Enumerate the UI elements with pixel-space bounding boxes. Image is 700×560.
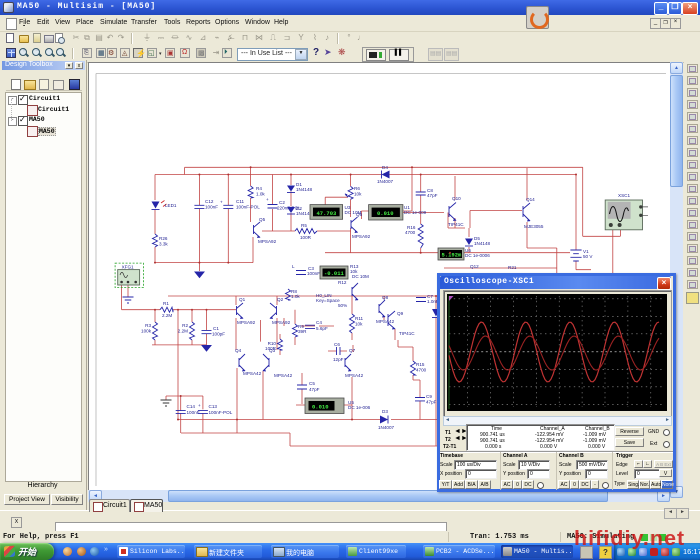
svg-text:DC 10M: DC 10M — [352, 274, 369, 279]
svg-text:50%: 50% — [338, 303, 347, 308]
svg-text:C4: C4 — [316, 320, 322, 325]
svg-text:47pF: 47pF — [427, 193, 438, 198]
svg-text:1N4148: 1N4148 — [474, 241, 491, 246]
svg-text:C14: C14 — [187, 404, 196, 409]
svg-text:Q2: Q2 — [277, 297, 284, 302]
svg-text:Q14: Q14 — [526, 197, 535, 202]
svg-text:100nF-POL: 100nF-POL — [236, 205, 260, 210]
svg-text:C11: C11 — [236, 199, 245, 204]
svg-text:C12: C12 — [205, 199, 214, 204]
svg-text:47pF: 47pF — [309, 387, 320, 392]
svg-text:1.0k: 1.0k — [291, 294, 300, 299]
svg-text:R1: R1 — [163, 301, 169, 306]
svg-text:1.0k: 1.0k — [256, 192, 265, 197]
svg-text:R6: R6 — [354, 186, 360, 191]
svg-text:MPSA92: MPSA92 — [352, 234, 371, 239]
svg-text:L: L — [292, 264, 295, 269]
svg-text:XSC1: XSC1 — [618, 193, 630, 198]
svg-text:100nF: 100nF — [205, 205, 218, 210]
svg-text:MPSA42: MPSA42 — [243, 371, 262, 376]
svg-text:DC 10M: DC 10M — [345, 210, 362, 215]
svg-text:100nF-POL: 100nF-POL — [209, 410, 233, 415]
svg-text:100R: 100R — [300, 235, 312, 240]
svg-text:TIP41C: TIP41C — [448, 222, 464, 227]
svg-text:R2: R2 — [182, 323, 188, 328]
svg-text:R3: R3 — [145, 323, 151, 328]
svg-text:C9: C9 — [426, 394, 432, 399]
svg-text:XFG1: XFG1 — [122, 265, 134, 270]
svg-text:MPSA42: MPSA42 — [274, 373, 293, 378]
svg-text:R4: R4 — [256, 186, 262, 191]
svg-text:100k: 100k — [141, 329, 152, 334]
svg-text:MPSA42: MPSA42 — [376, 319, 395, 324]
svg-text:Q12: Q12 — [470, 264, 479, 269]
svg-text:4700: 4700 — [416, 368, 427, 373]
svg-text:5.192m: 5.192m — [442, 252, 463, 259]
svg-text:Q7: Q7 — [349, 348, 356, 353]
svg-text:39R: 39R — [298, 329, 307, 334]
svg-text:MPSA92: MPSA92 — [237, 320, 256, 325]
svg-text:+: + — [266, 197, 269, 202]
svg-text:MJE3055: MJE3055 — [524, 224, 544, 229]
svg-text:R12: R12 — [338, 280, 347, 285]
svg-text:10k: 10k — [354, 192, 362, 197]
svg-text:100nF: 100nF — [307, 271, 320, 276]
svg-text:MPSA92: MPSA92 — [258, 239, 277, 244]
svg-text:C5: C5 — [309, 381, 315, 386]
svg-text:5.6pF: 5.6pF — [316, 326, 328, 331]
svg-text:C2: C2 — [279, 200, 285, 205]
svg-text:0.010: 0.010 — [312, 404, 329, 411]
svg-text:10k: 10k — [355, 322, 363, 327]
svg-text:-0.011: -0.011 — [324, 270, 345, 277]
svg-text:47pF: 47pF — [426, 400, 437, 405]
svg-text:Q1: Q1 — [239, 297, 246, 302]
svg-text:MPSA42: MPSA42 — [345, 373, 364, 378]
svg-text:12pF: 12pF — [333, 357, 344, 362]
svg-text:DC 1e-009: DC 1e-009 — [404, 210, 427, 215]
svg-text:1N4007: 1N4007 — [377, 179, 394, 184]
svg-text:DC 1e-006: DC 1e-006 — [348, 405, 371, 410]
svg-text:Q10: Q10 — [452, 196, 461, 201]
svg-text:47.703: 47.703 — [317, 210, 338, 217]
svg-text:Q5: Q5 — [259, 217, 266, 222]
svg-text:2.2M: 2.2M — [162, 313, 172, 318]
svg-text:R26: R26 — [159, 236, 168, 241]
svg-text:+: + — [220, 200, 223, 205]
svg-text:Q9: Q9 — [397, 311, 404, 316]
svg-text:C13: C13 — [209, 404, 218, 409]
svg-text:1N4007: 1N4007 — [378, 425, 395, 430]
svg-text:4700: 4700 — [405, 230, 416, 235]
svg-text:R15: R15 — [416, 362, 425, 367]
svg-text:R5: R5 — [301, 223, 307, 228]
svg-text:DC 1e-0006: DC 1e-0006 — [465, 253, 490, 258]
svg-text:Q3: Q3 — [269, 348, 276, 353]
svg-text:C1: C1 — [213, 326, 219, 331]
svg-text:50 V: 50 V — [583, 254, 593, 259]
svg-text:100nF: 100nF — [187, 410, 200, 415]
svg-text:D4: D4 — [382, 165, 388, 170]
svg-text:2.2M: 2.2M — [178, 329, 188, 334]
svg-text:LED1: LED1 — [165, 203, 177, 208]
svg-text:R11: R11 — [355, 316, 364, 321]
svg-text:D3: D3 — [382, 409, 388, 414]
svg-text:MPSA92: MPSA92 — [272, 320, 291, 325]
svg-text:+: + — [198, 403, 201, 408]
svg-text:R21: R21 — [508, 265, 517, 270]
svg-text:1N4148: 1N4148 — [296, 187, 313, 192]
svg-text:3.3k: 3.3k — [159, 242, 168, 247]
svg-text:0.010: 0.010 — [377, 210, 394, 217]
svg-text:Q4: Q4 — [235, 348, 242, 353]
svg-text:Q8: Q8 — [382, 295, 389, 300]
svg-text:TIP41C: TIP41C — [399, 331, 415, 336]
svg-text:C6: C6 — [334, 342, 340, 347]
svg-text:100pF: 100pF — [212, 332, 225, 337]
svg-text:Key=Space: Key=Space — [316, 298, 340, 303]
